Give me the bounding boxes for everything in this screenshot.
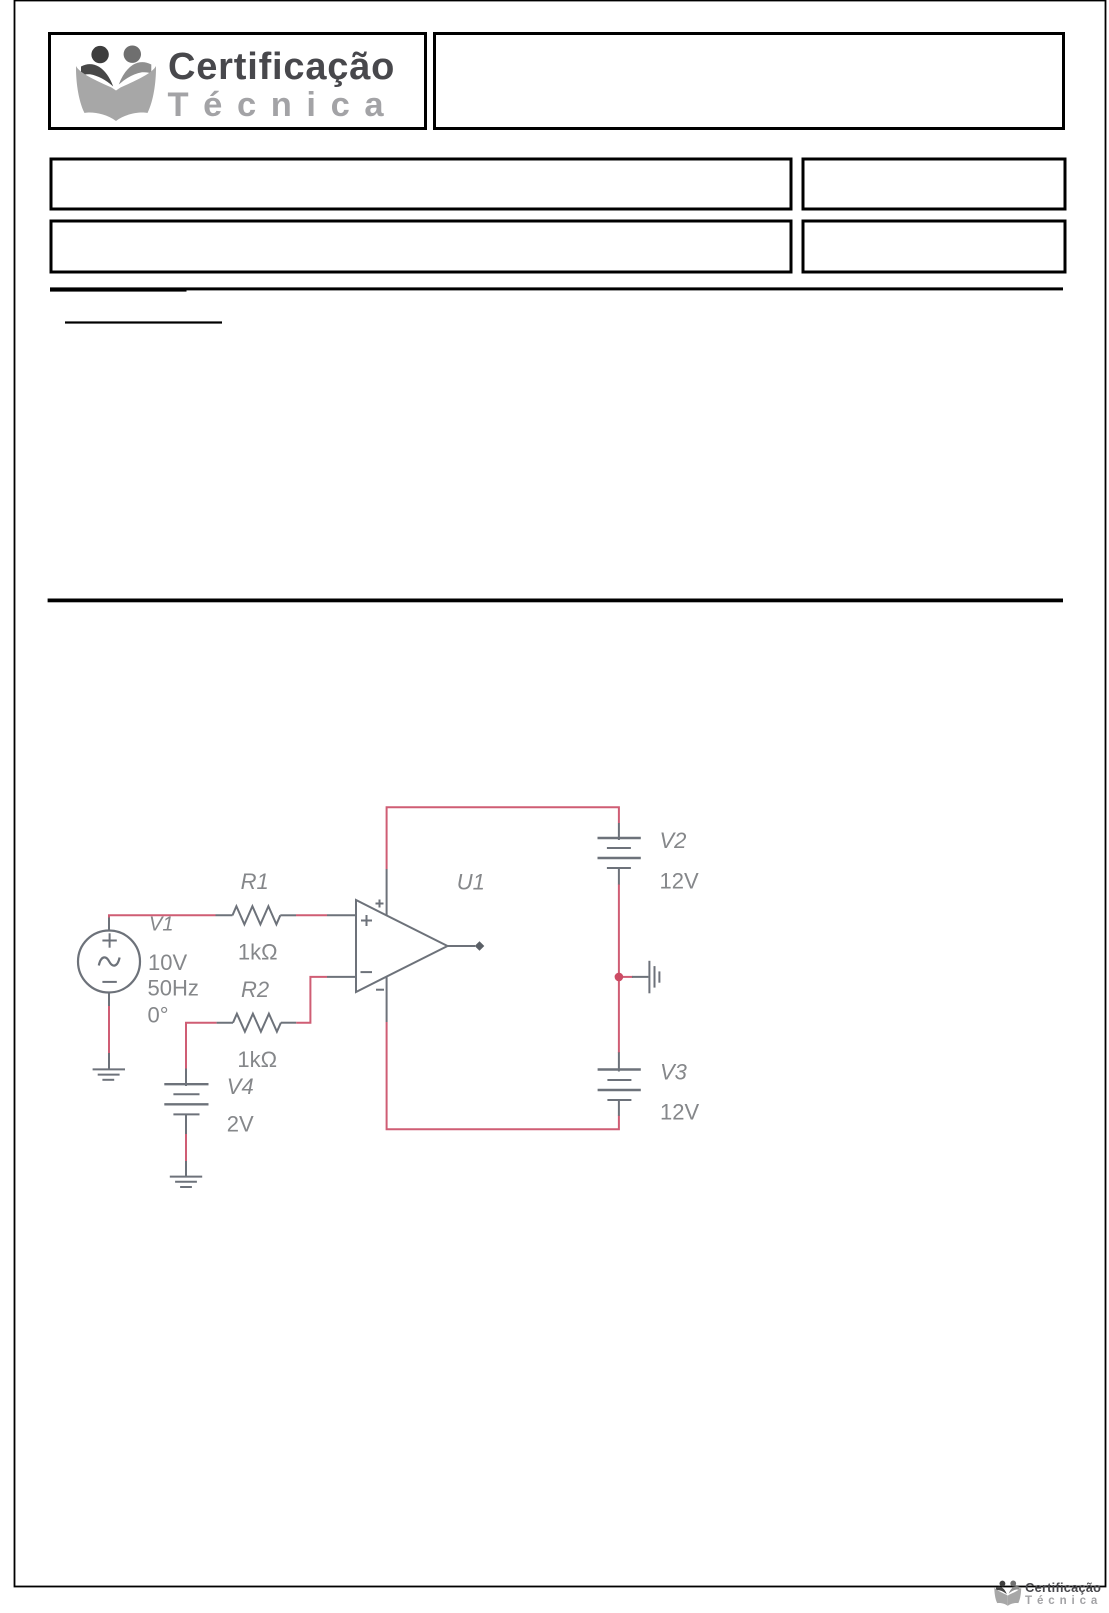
- wire R1 right to U1 plus input: [296, 914, 327, 916]
- svg-text:10V: 10V: [148, 950, 187, 975]
- horizontal rule under info rows: [50, 287, 1063, 290]
- wire V2 bottom to ground node: [618, 884, 620, 977]
- wire V4 top to R2 left: [186, 1023, 217, 1069]
- header right cell: [435, 34, 1064, 129]
- header logo cell: [50, 34, 426, 129]
- short title underline: [65, 321, 222, 323]
- battery V2: [598, 823, 641, 885]
- resistor R2: [217, 1014, 297, 1032]
- output probe diamond: [475, 941, 485, 951]
- battery V4: [164, 1069, 208, 1135]
- ground for V4: [170, 1161, 202, 1187]
- svg-text:1kΩ: 1kΩ: [238, 939, 278, 964]
- svg-text:1kΩ: 1kΩ: [237, 1047, 277, 1072]
- junction node dot: [615, 973, 624, 982]
- info row 1 left cell: [51, 159, 791, 209]
- big logo group: [76, 46, 398, 125]
- resistor R1: [216, 906, 297, 924]
- info row 2 left cell: [51, 221, 791, 272]
- wire ground node to V3 top: [618, 977, 620, 1053]
- svg-text:2V: 2V: [227, 1112, 254, 1137]
- svg-text:12V: 12V: [660, 1100, 699, 1125]
- ground for V1: [93, 1053, 125, 1080]
- wire U1 VCC pin to V2 top: [387, 807, 619, 869]
- circuit group: [78, 807, 699, 1187]
- info row 1 right cell: [803, 159, 1065, 209]
- AC source V1: [78, 918, 140, 1007]
- battery V3: [598, 1052, 641, 1116]
- mini logo group: [994, 1580, 1102, 1607]
- svg-text:R2: R2: [241, 977, 269, 1002]
- op-amp U1: [327, 869, 475, 1022]
- svg-text:V2: V2: [660, 828, 687, 853]
- wire V3 bottom to U1 VEE pin: [387, 1022, 619, 1129]
- svg-text:V4: V4: [227, 1074, 254, 1099]
- svg-text:50Hz: 50Hz: [148, 975, 199, 1000]
- wire V1 top to R1 left: [109, 915, 216, 919]
- svg-text:0°: 0°: [148, 1002, 169, 1027]
- thick section rule: [48, 599, 1063, 603]
- wire R2 right to U1 minus input: [296, 977, 327, 1023]
- svg-text:R1: R1: [241, 869, 269, 894]
- labels: [148, 828, 700, 1137]
- svg-text:V3: V3: [660, 1060, 688, 1085]
- svg-text:Certificação: Certificação: [168, 46, 395, 88]
- ground right of supply node: [632, 961, 659, 994]
- wire V1 bottom to ground: [108, 1005, 110, 1054]
- wire V4 bottom to ground: [185, 1133, 187, 1163]
- svg-text:12V: 12V: [660, 868, 699, 893]
- info row 2 right cell: [803, 221, 1065, 272]
- wire node stub to ground symbol: [620, 976, 633, 978]
- svg-text:Técnica: Técnica: [168, 86, 399, 124]
- svg-text:V1: V1: [149, 914, 173, 936]
- svg-text:U1: U1: [457, 869, 485, 894]
